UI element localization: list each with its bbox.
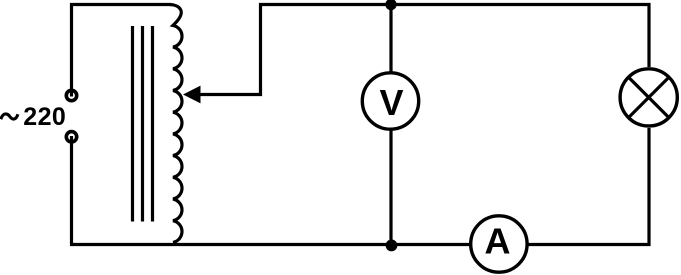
junction (top node): [385, 0, 396, 10]
wire : bottom rail left segment (corner to ammeter): [70, 243, 471, 246]
transformer core line 2: [141, 26, 144, 222]
terminal (lower source terminal): [66, 132, 76, 142]
wire : bottom rail right segment (ammeter to lamp): [527, 128, 649, 245]
wire : wiper to top rail and across to lamp: [199, 5, 649, 95]
voltmeter U1 circle: [362, 73, 418, 129]
lamp HL1 cross stroke 1: [629, 77, 669, 117]
wire : lower terminal down to bottom rail: [70, 136, 73, 245]
ammeter U2 circle: [471, 216, 527, 272]
svg-text:A: A: [485, 221, 511, 262]
wire : voltmeter branch upper: [389, 5, 392, 73]
wire : left vertical + top-left horizontal into transformer: [72, 5, 172, 97]
transformer core line 3: [151, 26, 154, 222]
lamp HL1 circle: [620, 69, 677, 126]
lamp HL1 cross stroke 2: [629, 77, 669, 117]
terminal (upper source terminal): [66, 90, 76, 100]
transformer T1 winding: [170, 5, 182, 243]
svg-text:220: 220: [23, 103, 66, 131]
junction (bottom node): [386, 240, 398, 252]
wire : voltmeter branch lower: [389, 130, 392, 245]
svg-text:V: V: [379, 82, 403, 123]
label ~220 : tilde: [1, 114, 18, 119]
wiper arrow: [183, 86, 201, 104]
transformer core line 1: [131, 26, 134, 222]
